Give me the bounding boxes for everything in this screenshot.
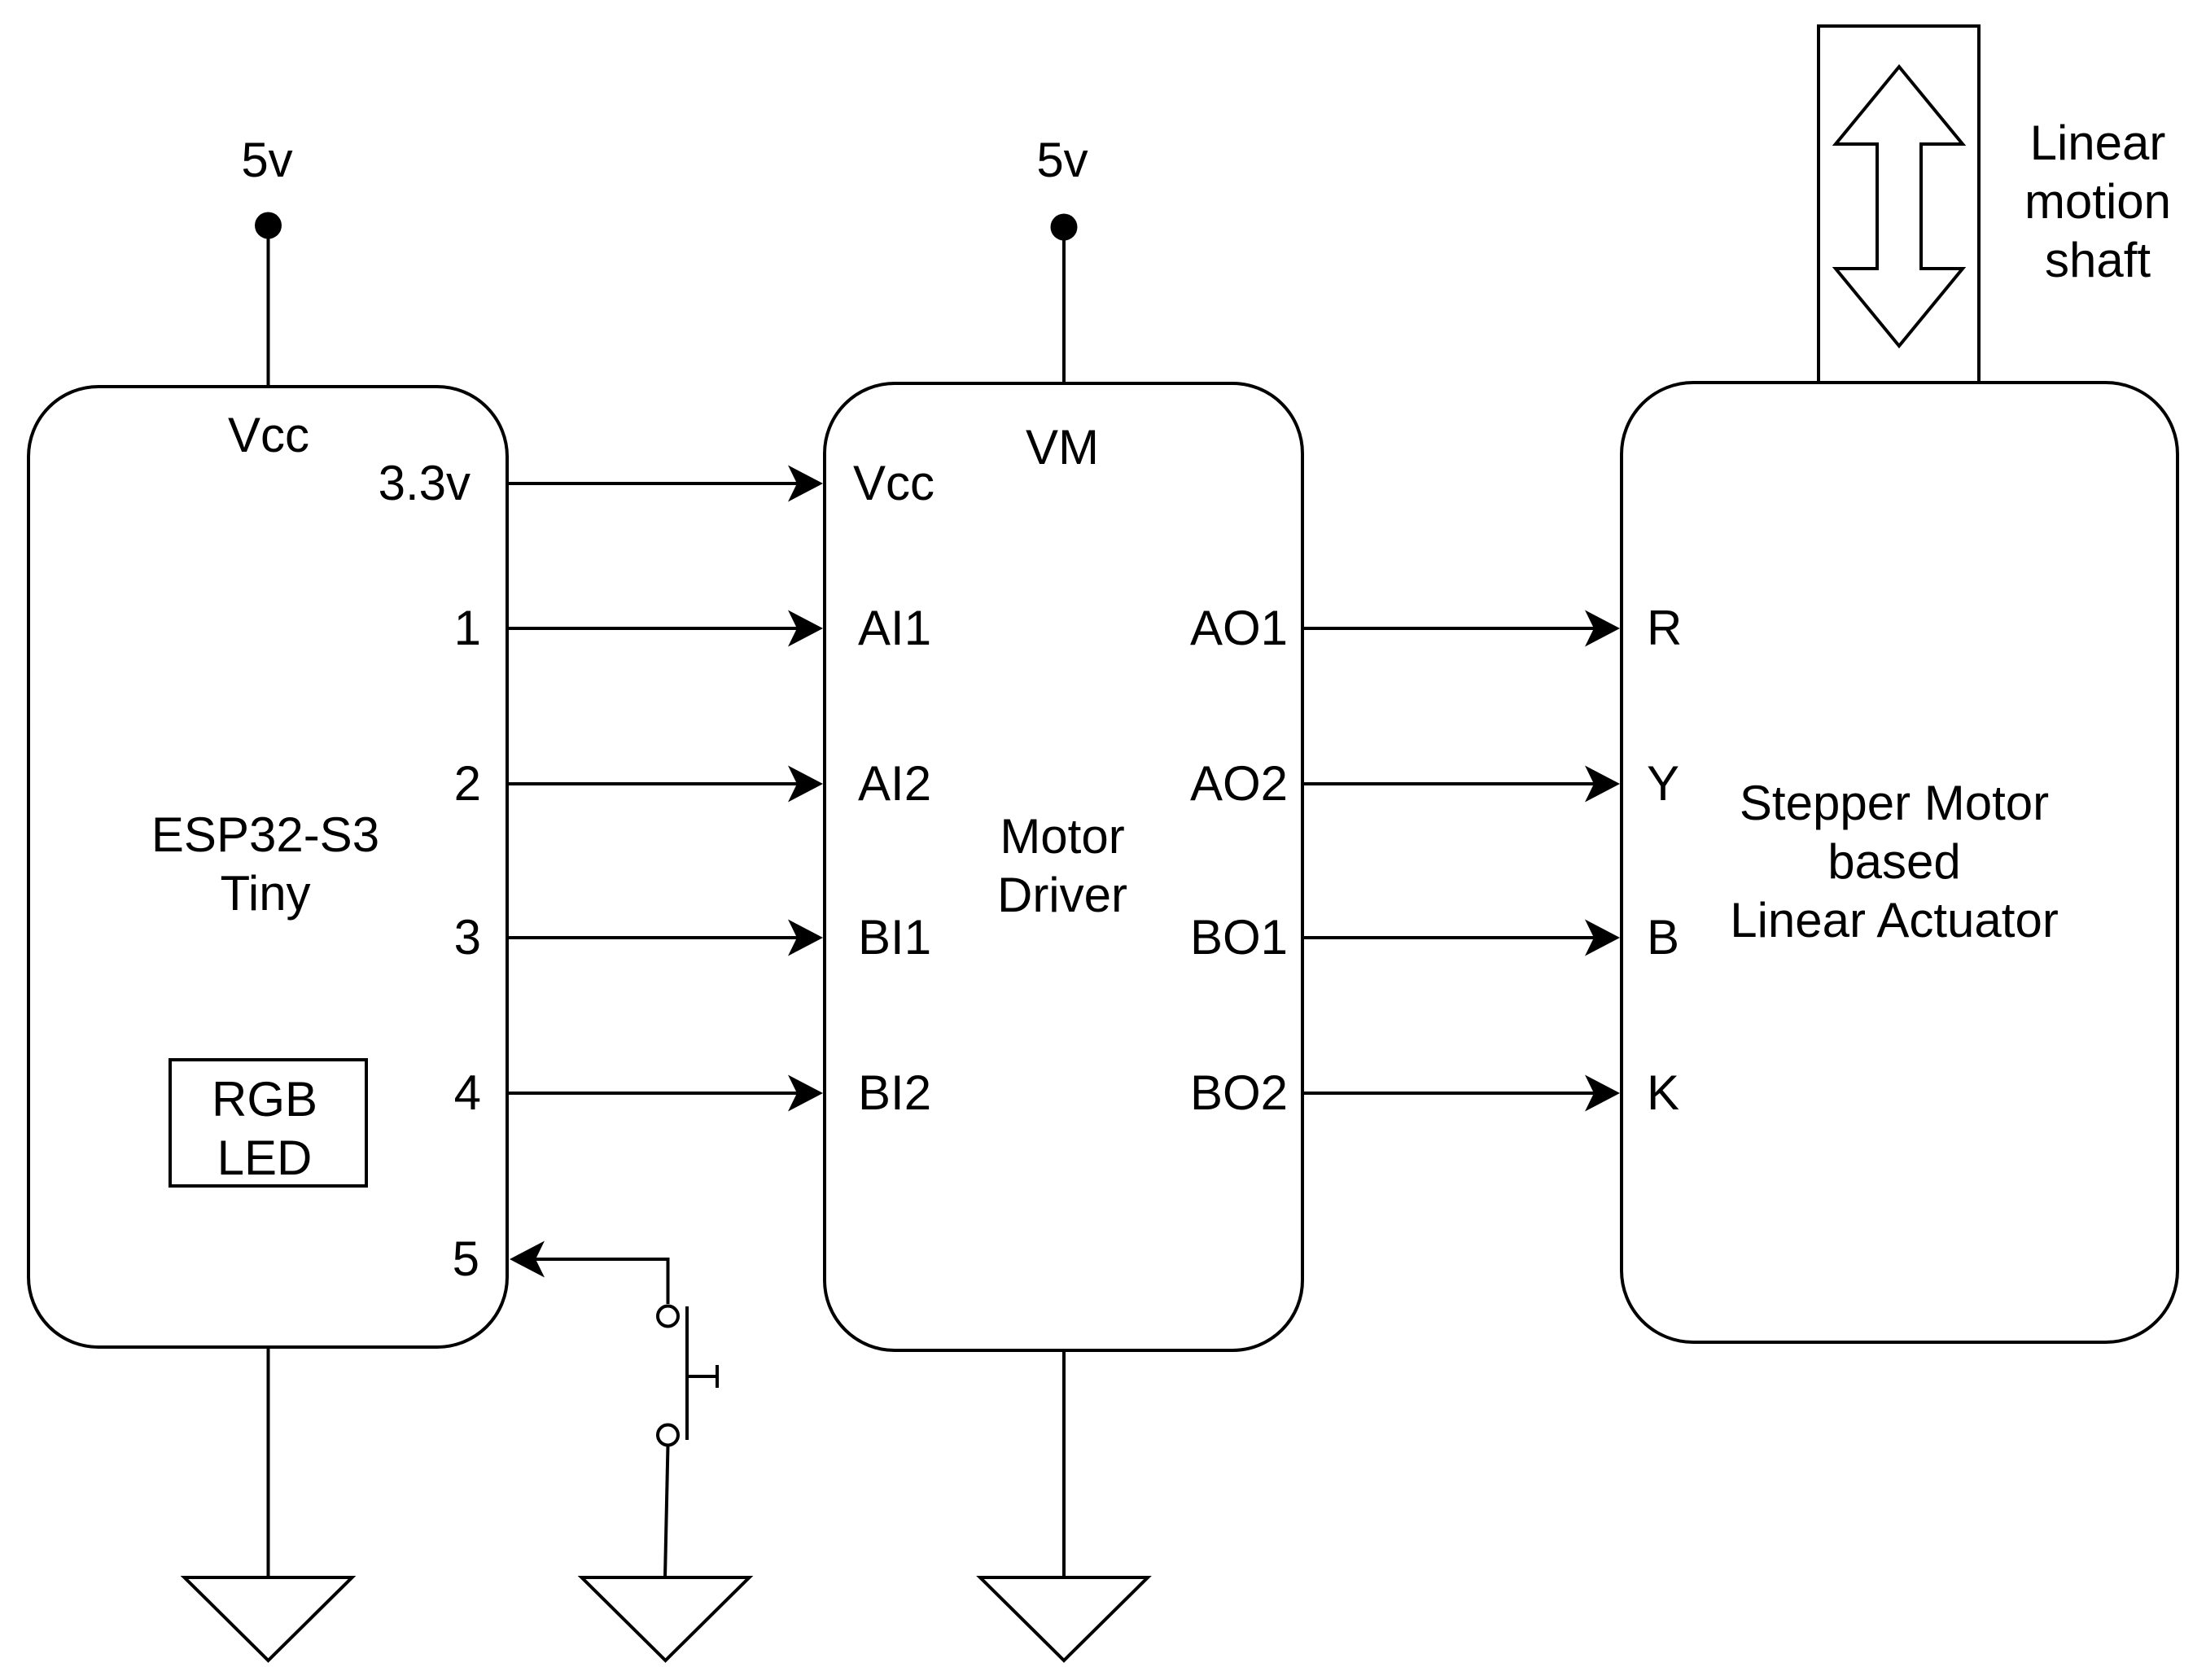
svg-text:Tiny: Tiny bbox=[220, 866, 310, 921]
svg-text:4: 4 bbox=[454, 1065, 481, 1120]
label ESP32-S3 Tiny bbox=[151, 807, 379, 921]
arrowhead into Y bbox=[1585, 766, 1620, 803]
wire AO1 to R bbox=[1302, 627, 1594, 630]
RGB LED indicator box bbox=[170, 1060, 366, 1186]
svg-text:BO2: BO2 bbox=[1190, 1065, 1288, 1120]
block M1 Stepper Motor based Linear Actuator bbox=[1622, 383, 2178, 1342]
svg-text:AI1: AI1 bbox=[858, 601, 931, 655]
svg-text:BI2: BI2 bbox=[858, 1065, 931, 1120]
wire pin2 to AI2 bbox=[507, 782, 798, 785]
wire switch to pin 5 bbox=[536, 1258, 668, 1304]
svg-text:Y: Y bbox=[1647, 756, 1679, 811]
label Stepper Motor based Linear Actuator bbox=[1730, 776, 2059, 947]
svg-text:AO1: AO1 bbox=[1190, 601, 1288, 655]
svg-text:3.3v: 3.3v bbox=[379, 456, 471, 510]
arrowhead into BI1 bbox=[788, 920, 823, 956]
svg-text:AO2: AO2 bbox=[1190, 756, 1288, 811]
svg-text:3: 3 bbox=[454, 910, 481, 965]
arrowhead into Vcc bbox=[788, 466, 823, 502]
svg-text:Stepper Motor: Stepper Motor bbox=[1740, 776, 2049, 830]
ground (U2) bbox=[980, 1577, 1148, 1660]
wire pin3 to BI1 bbox=[507, 936, 798, 939]
arrowhead into BI2 bbox=[788, 1075, 823, 1112]
svg-text:2: 2 bbox=[454, 756, 481, 811]
wire switch to ground bbox=[665, 1445, 668, 1577]
arrowhead into B bbox=[1585, 920, 1620, 956]
double-headed motion arrow bbox=[1836, 67, 1963, 346]
arrowhead into R bbox=[1585, 610, 1620, 647]
label Linear motion shaft bbox=[2024, 116, 2171, 287]
ground (U1) bbox=[185, 1577, 352, 1660]
arrowhead into K bbox=[1585, 1075, 1620, 1112]
svg-text:based: based bbox=[1827, 834, 1960, 889]
svg-text:Driver: Driver bbox=[997, 868, 1127, 922]
svg-text:Linear: Linear bbox=[2030, 116, 2166, 170]
svg-text:Linear Actuator: Linear Actuator bbox=[1730, 893, 2059, 947]
wire U2 to ground bbox=[1062, 1350, 1066, 1577]
svg-text:BO1: BO1 bbox=[1190, 910, 1288, 965]
power node 5v (left supply) bbox=[241, 133, 292, 388]
arrowhead into pin 5 bbox=[510, 1241, 545, 1278]
svg-text:shaft: shaft bbox=[2045, 233, 2151, 287]
block U1 ESP32-S3 Tiny bbox=[28, 387, 507, 1347]
svg-text:1: 1 bbox=[454, 601, 481, 655]
wire pin1 to AI1 bbox=[507, 627, 798, 630]
power node 5v (motor driver supply) bbox=[1036, 133, 1088, 385]
svg-text:LED: LED bbox=[217, 1131, 313, 1185]
svg-text:VM: VM bbox=[1026, 420, 1099, 475]
svg-text:motion: motion bbox=[2024, 174, 2171, 229]
svg-text:B: B bbox=[1647, 910, 1679, 965]
svg-text:5v: 5v bbox=[241, 133, 292, 187]
wire pin4 to BI2 bbox=[507, 1092, 798, 1095]
label Motor Driver bbox=[997, 809, 1127, 922]
svg-text:AI2: AI2 bbox=[858, 756, 931, 811]
pushbutton switch S1 bbox=[658, 1306, 717, 1446]
ground (switch) bbox=[582, 1577, 750, 1660]
svg-text:Vcc: Vcc bbox=[853, 456, 934, 510]
arrowhead into AI1 bbox=[788, 610, 823, 647]
svg-text:K: K bbox=[1647, 1065, 1679, 1120]
arrowhead into AI2 bbox=[788, 766, 823, 803]
svg-text:RGB: RGB bbox=[212, 1072, 317, 1127]
svg-text:5v: 5v bbox=[1036, 133, 1088, 187]
block U2 Motor Driver bbox=[825, 383, 1302, 1350]
linear motion shaft housing bbox=[1819, 26, 1979, 383]
svg-text:5: 5 bbox=[453, 1232, 479, 1286]
wire BO2 to K bbox=[1302, 1092, 1594, 1095]
wire 3.3v to Vcc bbox=[507, 482, 798, 485]
svg-text:R: R bbox=[1647, 601, 1682, 655]
svg-text:Vcc: Vcc bbox=[228, 408, 309, 462]
svg-text:BI1: BI1 bbox=[858, 910, 931, 965]
wire BO1 to B bbox=[1302, 936, 1594, 939]
svg-text:ESP32-S3: ESP32-S3 bbox=[151, 807, 379, 862]
svg-text:Motor: Motor bbox=[1000, 809, 1124, 864]
wire AO2 to Y bbox=[1302, 782, 1594, 785]
wire U1 to ground bbox=[267, 1347, 270, 1577]
